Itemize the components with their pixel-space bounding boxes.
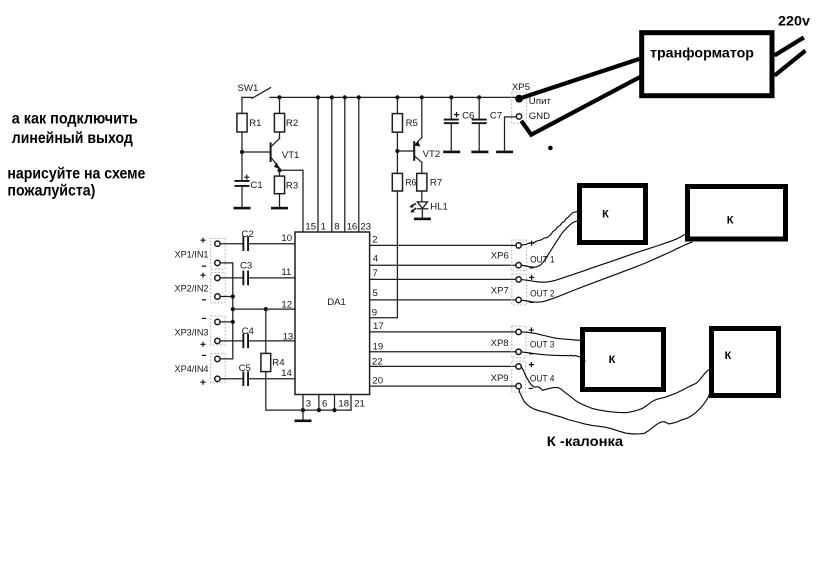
wire pin 2 to XP6+ (370, 244, 516, 246)
wire pin 7 to XP7+ (370, 278, 516, 280)
node junction (317, 408, 321, 412)
ground HL1 (414, 218, 431, 221)
node junction (231, 294, 235, 298)
svg-text:К: К (602, 209, 609, 221)
wire (249, 378, 295, 380)
wire SW1 to R1 (241, 97, 243, 113)
wire node A to VT1 base (242, 151, 270, 153)
speaker box K1 (580, 186, 646, 243)
wire XP2 minus stub (220, 296, 233, 298)
svg-text:2: 2 (372, 234, 377, 245)
resistor R6 (392, 173, 402, 191)
XP2 pins (215, 275, 220, 280)
wire pin 22 to XP9+ (370, 365, 516, 367)
node junction (316, 95, 320, 99)
speaker box K4 (712, 329, 779, 396)
wire (478, 97, 480, 119)
wire DA1 bottom pin (302, 395, 304, 411)
svg-text:C3: C3 (240, 261, 252, 272)
thick wire transformer to GND (521, 77, 640, 135)
node junction (395, 95, 399, 99)
wire VT1 emitter to pin 15 (280, 170, 304, 232)
node GND (pin 2 of XP5) (516, 114, 521, 119)
svg-text:OUT 2: OUT 2 (530, 288, 555, 299)
thick wire 220v line 2 (775, 51, 806, 76)
node junction (330, 95, 334, 99)
svg-text:3: 3 (306, 399, 311, 410)
wire R6 down to pin 9 (370, 191, 398, 318)
XP7 pins (516, 277, 521, 282)
XP4 pins (215, 356, 220, 361)
speaker box K2 (688, 187, 786, 240)
wire (249, 340, 295, 342)
node junction (231, 307, 235, 311)
svg-text:8: 8 (334, 222, 339, 233)
wire XP9+ to speaker K4 (521, 367, 710, 413)
node Uпит (pin 1 of XP5) (515, 95, 523, 103)
connector XP2 (211, 273, 226, 303)
resistor R3 (274, 176, 284, 194)
wire XP6- to speaker K1 (521, 221, 578, 267)
capacitor C1 (235, 180, 250, 182)
XP8 pins (516, 329, 521, 334)
svg-text:R3: R3 (286, 180, 298, 191)
node junction (332, 408, 336, 412)
svg-text:VT2: VT2 (423, 149, 441, 160)
connector XP5 (512, 92, 527, 123)
wire rail to R2 (279, 97, 281, 113)
svg-text:22: 22 (372, 356, 383, 367)
resistor R2 (274, 113, 284, 132)
svg-text:R6: R6 (405, 178, 416, 189)
svg-text:11: 11 (281, 267, 291, 278)
wire XP9- to speaker K4 (519, 389, 710, 434)
svg-text:XP1/IN1: XP1/IN1 (175, 249, 209, 260)
wire (478, 124, 480, 150)
node junction (277, 168, 281, 172)
wire R2 to VT1 collector (279, 132, 281, 139)
node junction (449, 95, 453, 99)
svg-text:OUT 4: OUT 4 (530, 373, 555, 384)
connector XP9 (512, 361, 526, 392)
wire C1 to ground (241, 187, 243, 207)
svg-text:R4: R4 (272, 358, 285, 369)
wire pin 5 to XP7- (370, 299, 516, 301)
op-amp IC DA1 (295, 232, 370, 395)
svg-text:18: 18 (338, 399, 349, 410)
wire DA1 bottom pin (318, 395, 320, 411)
wire node B to VT2 base (397, 150, 413, 152)
wire (220, 378, 242, 380)
wire rail to DA1 top pin (331, 97, 333, 232)
wire (220, 243, 242, 245)
svg-text:4: 4 (373, 254, 379, 265)
svg-text:OUT 3: OUT 3 (530, 339, 555, 350)
svg-text:C4: C4 (242, 326, 255, 337)
ground XP5 (496, 151, 513, 154)
svg-text:20: 20 (372, 376, 383, 387)
wire rail to DA1 top pin (344, 97, 346, 232)
wire pin 12 (233, 308, 295, 310)
node junction (277, 95, 281, 99)
svg-text:C2: C2 (241, 229, 253, 240)
svg-text:17: 17 (373, 321, 384, 332)
stray ink dot (548, 146, 553, 151)
wire pin 20 to XP9- (370, 385, 516, 387)
transistor VT2 (PNP) (413, 141, 415, 161)
wire DA1 bottom pin (350, 395, 352, 411)
wire pin 4 to XP6- (370, 264, 516, 266)
speaker box K3 (583, 330, 664, 390)
ground C7 (471, 151, 488, 154)
node junction (240, 150, 244, 154)
svg-text:XP2/IN2: XP2/IN2 (175, 284, 209, 295)
svg-text:R2: R2 (286, 118, 298, 129)
wire rail to DA1 top pin (317, 97, 319, 232)
ground C6 (443, 151, 460, 154)
wire emitter to R3 (279, 170, 281, 176)
svg-text:линейный выход: линейный выход (12, 130, 133, 147)
svg-text:К: К (609, 354, 616, 366)
transformer box (642, 33, 772, 96)
svg-text:транформатор: транформатор (650, 45, 754, 61)
svg-text:1: 1 (321, 222, 326, 233)
svg-text:XP6: XP6 (491, 250, 509, 261)
wire XP8- to speaker K3 (521, 352, 585, 361)
resistor R7 (417, 173, 427, 191)
wire power rail (270, 96, 517, 98)
ground DA1 (295, 420, 312, 423)
connector XP1 (211, 238, 226, 269)
wire R3 to ground (279, 194, 281, 207)
wire XP3 minus stub (220, 321, 233, 323)
wire VT2 collector to R7 (421, 162, 423, 173)
wire DA1 bottom pin (334, 395, 336, 411)
svg-text:VT1: VT1 (282, 150, 300, 161)
wire R1 to node A (241, 132, 243, 181)
wire (249, 243, 295, 245)
svg-text:220v: 220v (778, 13, 810, 29)
wire rail to DA1 top pin (358, 97, 360, 232)
resistor R4 (261, 353, 271, 371)
resistor R5 (392, 114, 402, 133)
svg-text:XP8: XP8 (491, 338, 509, 349)
svg-text:C7: C7 (490, 110, 502, 121)
svg-text:23: 23 (360, 222, 371, 233)
XP3 pins (215, 319, 220, 324)
wire R7 to HL1 (421, 191, 423, 202)
node junction (357, 95, 361, 99)
LED HL1 (417, 202, 427, 209)
svg-text:XP5: XP5 (512, 82, 530, 93)
svg-text:XP3/IN3: XP3/IN3 (175, 328, 209, 339)
node junction (343, 95, 347, 99)
wire XP7+ to speaker K2 (521, 234, 686, 282)
XP1 pins (215, 241, 220, 246)
svg-text:пит: пит (536, 96, 552, 107)
svg-text:16: 16 (347, 222, 358, 233)
node junction (395, 149, 399, 153)
svg-text:5: 5 (373, 288, 378, 299)
connector XP7 (512, 274, 527, 305)
svg-text:XP9: XP9 (491, 373, 509, 384)
wire bottom rail to ground (302, 410, 304, 419)
wire R5 to node B (396, 132, 398, 173)
node junction (477, 95, 481, 99)
svg-text:14: 14 (281, 368, 292, 379)
svg-text:XP7: XP7 (491, 285, 509, 296)
svg-text:HL1: HL1 (430, 202, 448, 213)
svg-text:К: К (727, 215, 734, 227)
svg-text:R1: R1 (249, 118, 261, 129)
switch SW1 (242, 88, 271, 99)
wire (220, 277, 242, 279)
svg-text:7: 7 (373, 268, 378, 279)
svg-text:R5: R5 (406, 118, 418, 129)
svg-text:6: 6 (322, 399, 327, 410)
svg-text:15: 15 (305, 222, 316, 233)
svg-text:GND: GND (529, 111, 550, 122)
connector XP4 (211, 354, 226, 383)
wire pin 17 to XP8+ (370, 331, 516, 333)
svg-text:19: 19 (373, 341, 384, 352)
node junction (420, 95, 424, 99)
wire (220, 340, 242, 342)
wire GND to ground (505, 117, 517, 150)
wire (450, 97, 452, 119)
svg-text:C5: C5 (239, 363, 251, 374)
wire R4 to bottom rail (266, 372, 351, 411)
wire (450, 124, 452, 150)
svg-text:R7: R7 (430, 178, 442, 189)
svg-text:XP4/IN4: XP4/IN4 (175, 364, 210, 375)
wire (249, 277, 295, 279)
wire pin12 node to R4 (265, 309, 267, 353)
ground R3 (271, 207, 288, 210)
XP9 pins (516, 364, 521, 369)
svg-text:OUT 1: OUT 1 (530, 255, 555, 266)
svg-text:U: U (529, 96, 536, 107)
svg-text:C1: C1 (250, 180, 262, 191)
svg-text:21: 21 (354, 399, 365, 410)
svg-text:К -калонка: К -калонка (547, 433, 624, 449)
XP6 pins (516, 243, 521, 248)
wire rail to R5 (396, 97, 398, 113)
svg-text:К: К (725, 350, 732, 362)
connector XP3 (211, 316, 226, 345)
svg-text:нарисуйте на схеме: нарисуйте на схеме (7, 165, 145, 182)
svg-text:9: 9 (372, 308, 377, 319)
svg-text:SW1: SW1 (238, 83, 259, 94)
transistor VT1 (270, 142, 272, 162)
wire rail to VT2 emitter (421, 97, 423, 137)
connector XP8 (512, 326, 526, 358)
svg-text:а как подключить: а как подключить (12, 110, 138, 127)
wire XP8+ to speaker K3 (521, 332, 582, 341)
thick wire transformer to Uпит (520, 59, 641, 99)
node junction (301, 408, 305, 412)
wire HL1 to ground (421, 209, 423, 218)
connector XP6 (512, 240, 527, 271)
wire minus bus (220, 263, 233, 359)
wire XP6+ to speaker K1 (521, 211, 578, 245)
ground C1 (234, 207, 251, 210)
svg-text:DA1: DA1 (327, 297, 346, 308)
node junction (231, 320, 235, 324)
svg-text:пожалуйста): пожалуйста) (7, 183, 95, 200)
thick wire 220v line 1 (775, 37, 804, 55)
wire XP7- to speaker K2 (521, 242, 692, 302)
node junction (264, 307, 268, 311)
wire pin 19 to XP8- (370, 351, 516, 353)
resistor R1 (237, 113, 247, 132)
svg-text:10: 10 (281, 233, 292, 244)
